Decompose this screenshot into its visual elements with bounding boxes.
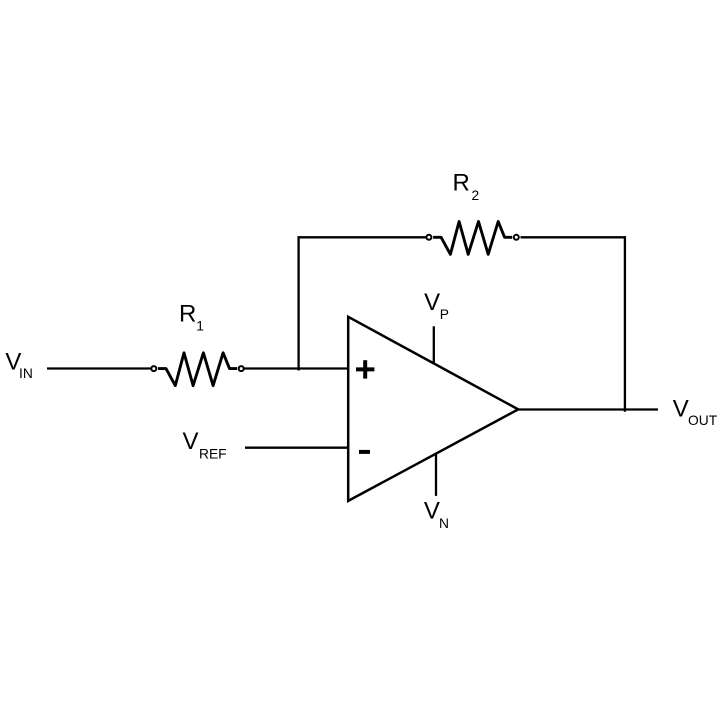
label V_REF (183, 428, 227, 462)
svg-text:V: V (424, 289, 440, 316)
svg-text:R: R (453, 170, 470, 197)
wire feedback top right segment (521, 236, 627, 238)
op-amp U1 non-inverting input marker (+) (356, 360, 374, 378)
svg-text:N: N (439, 516, 449, 531)
resistor R2 (426, 222, 518, 255)
pin V_P (positive supply) (433, 326, 435, 364)
svg-text:IN: IN (19, 366, 33, 381)
label R1 (179, 301, 204, 334)
svg-text:REF: REF (199, 447, 227, 462)
wire feedback right vertical (624, 236, 626, 412)
pin V_N (negative supply) (435, 453, 437, 496)
label V_N (424, 498, 449, 531)
svg-text:R: R (179, 301, 196, 328)
label V_P (424, 289, 449, 322)
op-amp U1 body (348, 317, 518, 501)
svg-text:OUT: OUT (688, 413, 718, 428)
op-amp U1 inverting input marker (-) (359, 450, 370, 454)
wire input left segment (47, 367, 151, 369)
label R2 (453, 170, 480, 204)
wire feedback left vertical (297, 236, 299, 370)
wire output (518, 408, 659, 410)
svg-text:1: 1 (196, 319, 204, 334)
wire feedback top left segment (298, 236, 427, 238)
svg-text:V: V (673, 395, 689, 422)
label V_OUT (673, 395, 718, 428)
wire V_REF input (245, 447, 349, 449)
svg-text:V: V (424, 498, 440, 525)
svg-text:2: 2 (472, 188, 480, 203)
wire input right segment (244, 367, 349, 369)
resistor R1 (151, 353, 243, 386)
label V_IN (5, 349, 32, 382)
svg-text:P: P (440, 307, 449, 322)
svg-text:V: V (183, 428, 199, 455)
